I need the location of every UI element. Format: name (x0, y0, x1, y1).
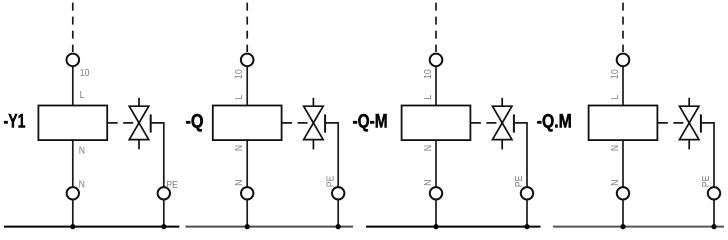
svg-text:L: L (80, 89, 85, 100)
svg-text:N: N (422, 180, 433, 186)
svg-text:PE: PE (325, 176, 336, 188)
svg-text:N: N (609, 145, 620, 151)
svg-text:N: N (234, 145, 245, 151)
svg-text:PE: PE (166, 179, 178, 190)
svg-text:10: 10 (234, 69, 245, 79)
svg-text:-Y1: -Y1 (4, 110, 26, 132)
svg-text:-Q: -Q (186, 110, 204, 132)
svg-text:N: N (422, 145, 433, 151)
svg-text:10: 10 (422, 69, 433, 79)
svg-text:-Q-M: -Q-M (353, 110, 388, 132)
svg-text:PE: PE (514, 176, 525, 188)
svg-text:N: N (234, 180, 245, 186)
svg-text:L: L (609, 95, 620, 100)
svg-text:PE: PE (701, 176, 712, 188)
svg-text:L: L (234, 95, 245, 100)
svg-text:10: 10 (609, 69, 620, 79)
svg-text:-Q.M: -Q.M (537, 110, 572, 132)
svg-text:10: 10 (80, 67, 90, 78)
svg-text:N: N (79, 179, 85, 190)
svg-text:N: N (79, 145, 85, 156)
svg-text:L: L (422, 95, 433, 100)
svg-text:N: N (609, 180, 620, 186)
